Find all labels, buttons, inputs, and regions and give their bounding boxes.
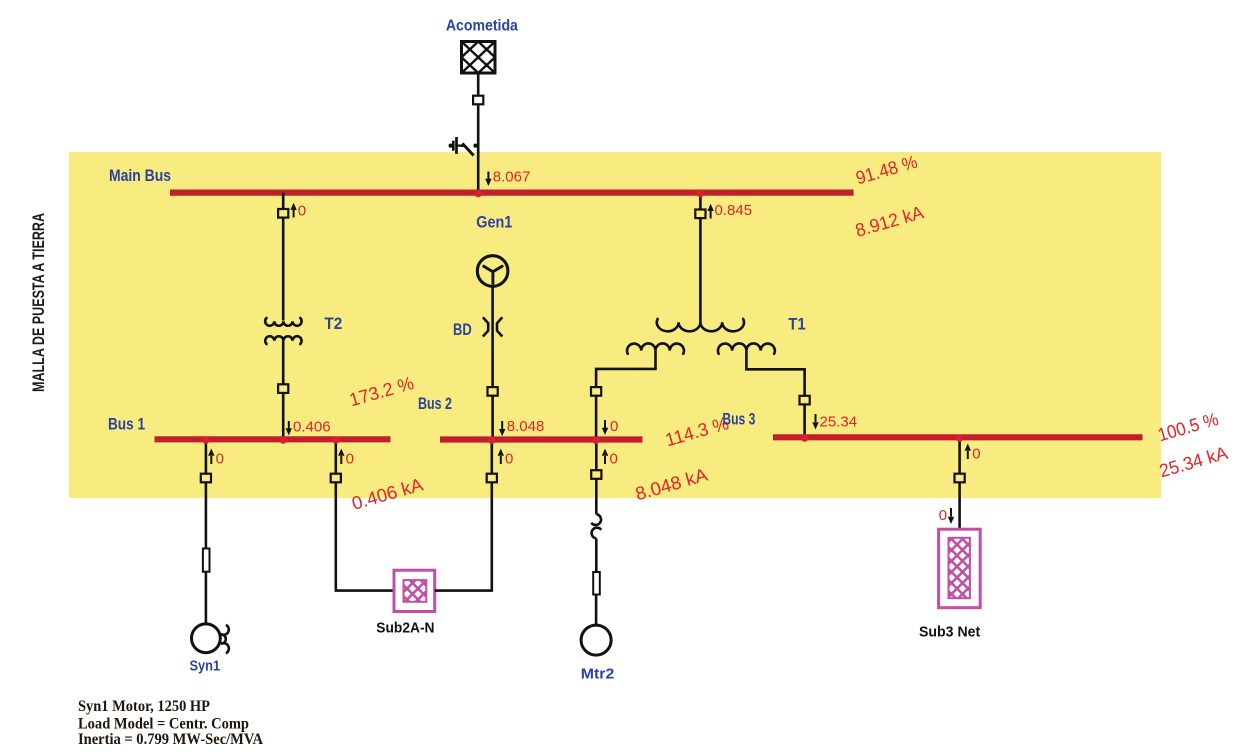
arrow flow 8.048 into Bus 2: [499, 418, 544, 436]
node dot T2/Bus1: [280, 436, 287, 443]
arrow flow 0 below Bus2 right: [602, 449, 618, 468]
wire Sub2A-N to Bus 2: [435, 440, 492, 591]
arrow flow 0.845: [707, 202, 752, 219]
wire cable to fuse: [595, 538, 598, 571]
wire T2 to Bus 1: [282, 341, 285, 438]
node dot Gen1/Bus2: [488, 437, 495, 444]
fuse Mtr2: [593, 572, 600, 595]
svg-text:Gen1: Gen1: [476, 214, 512, 232]
svg-text:25.34: 25.34: [820, 414, 858, 431]
svg-text:Inertia = 0.799 MW-Sec/MVA: Inertia = 0.799 MW-Sec/MVA: [78, 731, 263, 748]
wire Bus1 to Sub2A-N: [336, 439, 394, 590]
utility U1 power grid symbol: [462, 42, 496, 74]
svg-text:0.845: 0.845: [715, 202, 753, 219]
svg-text:0: 0: [610, 418, 618, 435]
bus duct BD symbol: [483, 317, 502, 336]
svg-text:Mtr2: Mtr2: [581, 666, 615, 683]
node yellow grounding-mesh area: [69, 152, 1161, 498]
node junction dot T1 feeder/Main Bus: [697, 190, 704, 197]
breaker CB Mtr2: [591, 470, 601, 479]
arrow flow 0 Bus1 right branch: [338, 449, 354, 468]
svg-text:MALLA DE PUESTA A TIERRA: MALLA DE PUESTA A TIERRA: [30, 213, 48, 392]
node dot Sub3/Bus3: [956, 434, 963, 441]
wire Main Bus to T1: [699, 193, 702, 323]
breaker CB Gen1 to Bus2: [488, 387, 498, 396]
transformer T1 right secondary winding: [718, 343, 775, 353]
arrow flow 0 into Sub3: [939, 507, 954, 524]
arrow flow 0 into Bus 2 from T1: [602, 418, 619, 435]
motor Mtr2 circle: [581, 625, 611, 655]
svg-text:T1: T1: [788, 316, 806, 334]
svg-text:Syn1: Syn1: [190, 658, 221, 675]
svg-text:Sub2A-N: Sub2A-N: [376, 620, 434, 637]
generator Gen1 circle with wye: [477, 256, 508, 287]
bus Main Bus bar: [170, 190, 854, 196]
breaker CB Bus2 to Sub2A: [487, 474, 497, 483]
network Sub2A-N symbol: [394, 570, 435, 611]
svg-text:Sub3 Net: Sub3 Net: [919, 624, 980, 641]
bus Bus 2 bar: [440, 436, 643, 442]
arrow flow 8.067 into Main Bus: [485, 169, 530, 187]
fuse Syn1: [203, 549, 210, 572]
cable to Mtr2 squiggle: [591, 514, 601, 538]
bus Bus 3 bar: [773, 434, 1143, 440]
wire Bus2 to Mtr2: [595, 440, 598, 515]
breaker CB T1 right secondary: [800, 396, 810, 405]
wire T1 right secondary to Bus 3: [746, 351, 804, 438]
breaker CB-utility: [473, 96, 483, 105]
arrow flow 0 below Bus2 left: [498, 449, 514, 468]
svg-text:0: 0: [939, 507, 947, 524]
svg-text:25.34 kA: 25.34 kA: [1157, 442, 1231, 482]
svg-text:0.406: 0.406: [293, 419, 331, 436]
wire Gen1 to Bus 2: [491, 286, 494, 439]
breaker CB T1 left secondary: [591, 387, 601, 396]
transformer T1 left secondary winding: [627, 343, 684, 353]
svg-text:0: 0: [505, 451, 513, 468]
svg-text:BD: BD: [453, 321, 472, 339]
wire T1 left secondary to Bus 2: [596, 351, 655, 440]
node dot Sub2A feeder/Bus1: [332, 436, 339, 443]
note Syn1 motor data text: [78, 698, 263, 748]
svg-text:Bus 2: Bus 2: [418, 395, 452, 413]
arrow flow 0 below Bus3: [965, 444, 981, 463]
node dot T1-right/Bus3: [801, 434, 808, 441]
node dot T1-left/Bus2: [592, 437, 599, 444]
svg-text:0: 0: [216, 451, 224, 468]
wire Bus3 to Sub3 Net: [958, 437, 961, 529]
svg-text:Bus 1: Bus 1: [108, 416, 145, 434]
breaker CB Syn1: [201, 474, 211, 483]
svg-text:8.048: 8.048: [507, 418, 545, 435]
motor Syn1 circle: [192, 624, 221, 653]
network Sub3 Net symbol: [939, 529, 981, 608]
svg-text:0: 0: [346, 451, 354, 468]
breaker CB Bus1 right branch: [331, 474, 341, 483]
svg-text:0: 0: [298, 203, 306, 220]
svg-text:8.067: 8.067: [493, 169, 531, 186]
wire Main Bus to T2: [282, 193, 285, 321]
switch/fuse on utility feeder: [449, 137, 478, 156]
svg-text:Acometida: Acometida: [446, 18, 518, 35]
arrow flow 25.34 into Bus 3: [812, 414, 857, 431]
svg-text:Main Bus: Main Bus: [109, 167, 171, 185]
svg-text:Load Model = Centr. Comp: Load Model = Centr. Comp: [78, 716, 249, 733]
wire fuse to Mtr2: [595, 596, 598, 626]
arrow flow 0.406 into Bus 1: [286, 419, 331, 436]
svg-text:0: 0: [610, 451, 618, 468]
svg-text:Bus 3: Bus 3: [722, 411, 755, 429]
motor Syn1 winding squiggle: [221, 625, 229, 653]
arrow flow 0 at T2 primary: [290, 203, 306, 220]
wire Bus1 to Syn1: [205, 439, 208, 624]
svg-text:Syn1 Motor, 1250 HP: Syn1 Motor, 1250 HP: [78, 698, 210, 715]
breaker CB T1 primary: [695, 210, 705, 219]
svg-text:0: 0: [972, 446, 980, 463]
bus Bus 1 bar: [155, 436, 391, 442]
transformer T1 primary winding: [657, 319, 744, 331]
breaker CB T2 primary: [278, 209, 288, 218]
breaker CB T2 secondary: [278, 384, 288, 393]
svg-text:T2: T2: [324, 315, 342, 333]
node dot Syn1/Bus1: [202, 436, 209, 443]
arrow flow 0 Syn1: [208, 449, 224, 468]
svg-text:100.5 %: 100.5 %: [1155, 408, 1220, 445]
transformer T2: [265, 318, 301, 344]
node junction dot utility/Main Bus: [475, 190, 482, 197]
breaker CB Sub3: [955, 474, 965, 483]
wire utility to Main Bus: [477, 73, 480, 190]
